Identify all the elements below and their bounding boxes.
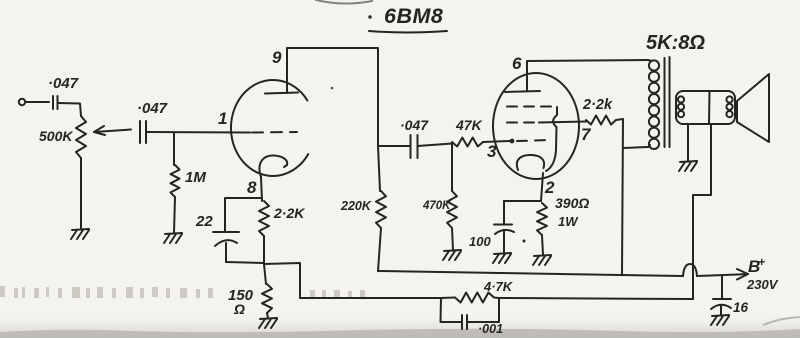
ground — [443, 250, 461, 260]
wire to transformer primary bottom — [623, 147, 648, 148]
resistor R8 150ohm — [228, 264, 272, 317]
ground — [164, 233, 182, 243]
wire — [267, 313, 268, 318]
wire pentode cathode node — [504, 200, 541, 202]
tube V1 triode envelope — [231, 80, 308, 176]
wire plate top run — [287, 48, 378, 146]
input jack J1 — [19, 99, 25, 105]
grid of V1A (dashed) — [252, 131, 297, 134]
svg-text:·047: ·047 — [137, 100, 168, 117]
svg-text:6BM8: 6BM8 — [384, 4, 443, 28]
resistor R1 1M — [171, 133, 207, 198]
capacitor C6 .001 — [441, 298, 504, 336]
ground — [493, 253, 511, 263]
svg-text:47K: 47K — [455, 117, 483, 133]
wire speaker to ground — [687, 124, 689, 161]
grid g3 (dashed) — [507, 106, 557, 108]
svg-text:2: 2 — [544, 178, 555, 197]
plate of V1B — [505, 64, 540, 92]
wire — [80, 158, 82, 229]
capacitor C5 22 cathode bypass — [195, 198, 264, 263]
capacitor C4 100 bypass — [469, 201, 514, 252]
wire 220K to B+ bus — [378, 228, 381, 271]
capacitor C1 .047 — [48, 75, 79, 109]
svg-text:6: 6 — [512, 54, 522, 73]
svg-text:5K:8Ω: 5K:8Ω — [646, 32, 705, 54]
transformer core — [665, 57, 670, 147]
capacitor C7 16 (filter) — [711, 275, 749, 315]
wire — [174, 197, 175, 233]
svg-text:Ω: Ω — [233, 301, 245, 317]
tube V1 pentode envelope — [493, 73, 579, 179]
svg-text:100: 100 — [469, 234, 491, 249]
B+ bus — [378, 264, 738, 276]
g3 to cathode tie wire with hop — [546, 107, 557, 171]
wire g2 to pin 7 — [539, 122, 586, 123]
svg-text:·001: ·001 — [478, 322, 503, 336]
svg-text:·047: ·047 — [400, 117, 429, 133]
ground — [679, 161, 697, 171]
wire feedback to cathode — [264, 263, 441, 298]
wire g1 lead with dot — [483, 139, 514, 144]
capacitor C2 .047 — [137, 100, 168, 143]
svg-text:4·7K: 4·7K — [483, 279, 514, 294]
ground — [533, 255, 551, 265]
resistor R6 390ohm 1W — [537, 195, 589, 235]
svg-text:·047: ·047 — [48, 75, 79, 92]
svg-text:230V: 230V — [746, 277, 779, 292]
wire cathode to junction — [261, 177, 262, 201]
resistor R4 2.2K screen — [582, 97, 616, 125]
ground — [259, 318, 277, 328]
svg-text:390Ω: 390Ω — [555, 195, 589, 211]
svg-text:1M: 1M — [185, 169, 206, 186]
wire — [26, 101, 50, 103]
node B+ arrow — [737, 255, 779, 292]
svg-text:8: 8 — [247, 178, 257, 197]
wire screen node down to B+ bus — [616, 119, 623, 274]
cathode of V1A — [259, 155, 287, 177]
resistor R7 2.2K (triode cathode) — [259, 201, 305, 236]
svg-text:22: 22 — [195, 213, 213, 230]
svg-text:2·2k: 2·2k — [582, 97, 613, 113]
svg-text:470K: 470K — [422, 200, 451, 212]
wire — [58, 103, 82, 116]
wire — [452, 228, 453, 250]
svg-text:500K: 500K — [39, 128, 73, 144]
wire — [542, 235, 543, 255]
resistor R9 4.7K feedback — [441, 279, 514, 303]
grid g1 (dashed) — [517, 140, 550, 141]
svg-text:220K: 220K — [340, 199, 372, 213]
svg-text:7: 7 — [581, 125, 592, 144]
svg-text:1W: 1W — [558, 214, 579, 229]
grid g2 screen (dashed) — [507, 122, 539, 124]
ground — [711, 315, 729, 325]
wire feedback line right — [499, 298, 693, 299]
svg-text:16: 16 — [733, 300, 749, 315]
resistor R3 47K — [452, 117, 483, 147]
title 6BM8 — [368, 4, 447, 33]
wire pentode plate to transformer — [527, 60, 648, 64]
speaker SP1 voice-coil box — [676, 91, 735, 124]
resistor R2 220K — [340, 146, 386, 228]
svg-text:9: 9 — [272, 48, 282, 67]
svg-text:1: 1 — [218, 109, 227, 128]
ground — [71, 229, 89, 239]
transformer T1 5K:8ohm primary winding — [646, 32, 705, 149]
potentiometer VR1 500K — [39, 116, 131, 158]
resistor R5 470K — [422, 144, 457, 229]
capacitor C3 .047 coupling — [378, 117, 429, 158]
svg-text:2·2K: 2·2K — [273, 205, 305, 221]
wire cathode to junction — [541, 173, 543, 201]
plate of V1A — [265, 50, 298, 94]
wire grid of V1A — [146, 131, 250, 134]
wire — [263, 236, 265, 264]
wire speaker feedback down — [693, 124, 711, 299]
speaker horn — [737, 74, 769, 142]
cathode of V1B — [517, 155, 544, 170]
wire — [418, 144, 453, 147]
svg-text:+: + — [758, 255, 765, 269]
